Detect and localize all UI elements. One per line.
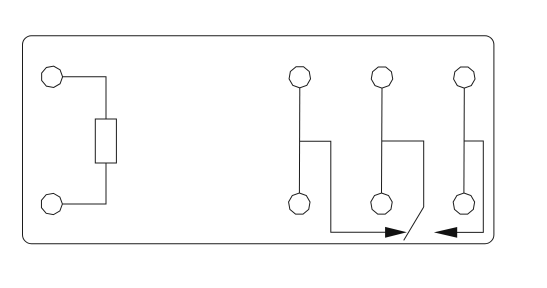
- pin 4 (contact column 2, top): [371, 67, 392, 88]
- wire: column 2 branch to movable contact: [382, 141, 424, 207]
- wire: coil bottom to pin 2: [62, 163, 106, 204]
- pin 7 (contact column 2, bottom): [371, 193, 392, 214]
- arrowhead right (normally-closed contact, points left): [434, 227, 457, 238]
- pin 3 (contact column 1, top): [289, 67, 310, 88]
- wire: column 3 branch to stationary contact: [448, 141, 483, 232]
- switch blade (movable contact): [404, 207, 424, 240]
- wire: pin 1 to coil top: [63, 77, 106, 119]
- pin 8 (contact column 3, bottom): [453, 193, 474, 214]
- pin 2 (coil, bottom-left): [41, 193, 62, 214]
- coil K1: [95, 119, 116, 163]
- relay body outline: [23, 36, 494, 244]
- pin 6 (contact column 1, bottom): [289, 193, 310, 214]
- pin 5 (contact column 3, top): [454, 67, 475, 88]
- pin 1 (coil, top-left): [42, 66, 63, 87]
- wire: column 3 vertical: [463, 88, 465, 193]
- wire: column 1 vertical: [298, 88, 300, 193]
- wire: column 1 branch to stationary contact: [300, 141, 392, 232]
- wire: column 2 vertical: [381, 88, 384, 193]
- arrowhead left (normally-open contact, points right): [385, 227, 407, 238]
